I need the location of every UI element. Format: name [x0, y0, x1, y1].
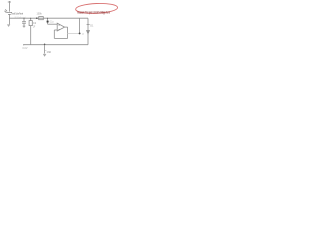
capacitor C1 bottom lead — [23, 23, 25, 25]
wire — [87, 25, 89, 31]
capacitor C3 top lead — [47, 18, 49, 20]
wire right branch down — [87, 18, 89, 24]
svg-text:100k: 100k — [37, 13, 43, 16]
wire output node up to top rail — [79, 18, 81, 33]
ground under C1 — [23, 25, 26, 27]
op-amp minus mark — [58, 28, 59, 30]
tick D1 anode — [87, 24, 90, 26]
wire C2 down to ground rail — [30, 26, 32, 45]
svg-text:measure the open circuit volta: measure the open circuit voltage here — [77, 11, 110, 15]
wire feedback bottom — [54, 37, 67, 39]
op-amp U1 triangle — [57, 23, 64, 31]
capacitor C1 plates — [22, 21, 26, 23]
svg-text:0.0V: 0.0V — [23, 48, 28, 50]
wire op-amp output — [65, 26, 68, 28]
svg-text:GND: GND — [47, 51, 52, 54]
wire ground rail — [24, 44, 88, 46]
capacitor C3 blob — [47, 21, 49, 23]
wire C3 to op-amp plus input — [47, 23, 49, 25]
svg-text:9V 60mA rated: 9V 60mA rated — [15, 16, 26, 19]
wire down to ground rail — [87, 34, 89, 45]
wire ground stem — [44, 45, 46, 54]
solar cell PV1 plates — [7, 11, 12, 13]
wire main top rail — [9, 17, 88, 19]
wire feedback left — [53, 30, 55, 38]
wire solar bottom lead — [8, 14, 10, 24]
ground left — [7, 24, 10, 27]
diode D1 triangle — [87, 31, 90, 34]
supercap C2 top lead — [30, 18, 32, 20]
wire minus input — [54, 29, 57, 31]
node dot ground rail — [44, 44, 46, 46]
wire feedback right — [67, 27, 69, 38]
supercap C2 body — [29, 21, 32, 26]
node dot output — [79, 32, 81, 34]
ground symbol — [43, 53, 46, 55]
node dot R1 left — [36, 17, 38, 19]
wire solar top lead — [8, 1, 10, 12]
wire output node horizontal — [68, 32, 80, 34]
node dot C3 — [47, 18, 48, 19]
resistor R1 body — [39, 17, 44, 20]
annotation ellipse red — [75, 3, 117, 15]
solar cell arrows — [5, 9, 7, 11]
svg-text:0.1u: 0.1u — [50, 21, 54, 24]
plus sign top of solar panel — [8, 1, 11, 3]
node dot C2 — [30, 18, 31, 19]
op-amp plus mark — [58, 24, 59, 26]
svg-text:Small Solar Panel: Small Solar Panel — [11, 12, 23, 16]
capacitor C1 top lead — [23, 18, 25, 21]
node dot C1 — [24, 18, 25, 19]
